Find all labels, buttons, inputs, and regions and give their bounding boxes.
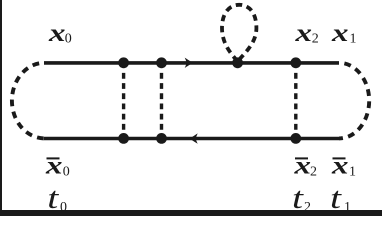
svg-text:x: x — [293, 151, 311, 180]
left frame border line — [0, 0, 2, 216]
svg-text:1: 1 — [349, 165, 356, 180]
top quark propagator line x0 to x1 — [44, 61, 339, 65]
left dashed arc (gluon/meson line closing contour on left) — [12, 63, 45, 139]
vertex dot top line 2 — [156, 57, 167, 68]
dashed gluon loop (tadpole) at top vertex — [222, 5, 256, 61]
overbar of x0bar — [47, 157, 60, 159]
vertex dot top line 4 — [290, 57, 301, 68]
overbar of x2bar — [295, 157, 308, 159]
vertex dot bottom line 3 — [290, 133, 301, 144]
arrow on top line pointing right — [185, 58, 193, 68]
bottom frame rule — [0, 210, 382, 216]
overbar of x1bar — [333, 157, 346, 159]
svg-text:2: 2 — [310, 165, 317, 180]
svg-text:1: 1 — [344, 200, 351, 215]
arrow on bottom line pointing left — [190, 133, 198, 143]
vertex dot bottom line 1 — [118, 133, 129, 144]
svg-text:0: 0 — [65, 32, 72, 47]
svg-text:1: 1 — [350, 32, 357, 47]
svg-text:0: 0 — [60, 200, 67, 215]
svg-text:x: x — [331, 18, 349, 47]
svg-text:t: t — [47, 180, 60, 215]
dashed vertical gluon line 1 — [122, 73, 125, 130]
vertex dot top line 1 — [118, 57, 129, 68]
svg-text:2: 2 — [312, 32, 319, 47]
svg-text:0: 0 — [63, 165, 70, 180]
right dashed arc (closing contour on right) — [339, 63, 369, 139]
vertex dot top line 3 (loop attachment) — [232, 57, 243, 68]
svg-text:x: x — [45, 151, 63, 180]
dashed vertical gluon line 2 — [160, 73, 163, 130]
svg-text:x: x — [331, 151, 349, 180]
svg-text:2: 2 — [304, 200, 311, 215]
bottom quark propagator line x0bar to x1bar — [44, 137, 339, 141]
svg-text:t: t — [292, 180, 305, 215]
vertex dot bottom line 2 — [156, 133, 167, 144]
dashed vertical gluon line 3 — [294, 73, 297, 130]
svg-text:t: t — [330, 180, 343, 215]
svg-text:x: x — [294, 18, 312, 47]
svg-text:x: x — [48, 18, 66, 47]
